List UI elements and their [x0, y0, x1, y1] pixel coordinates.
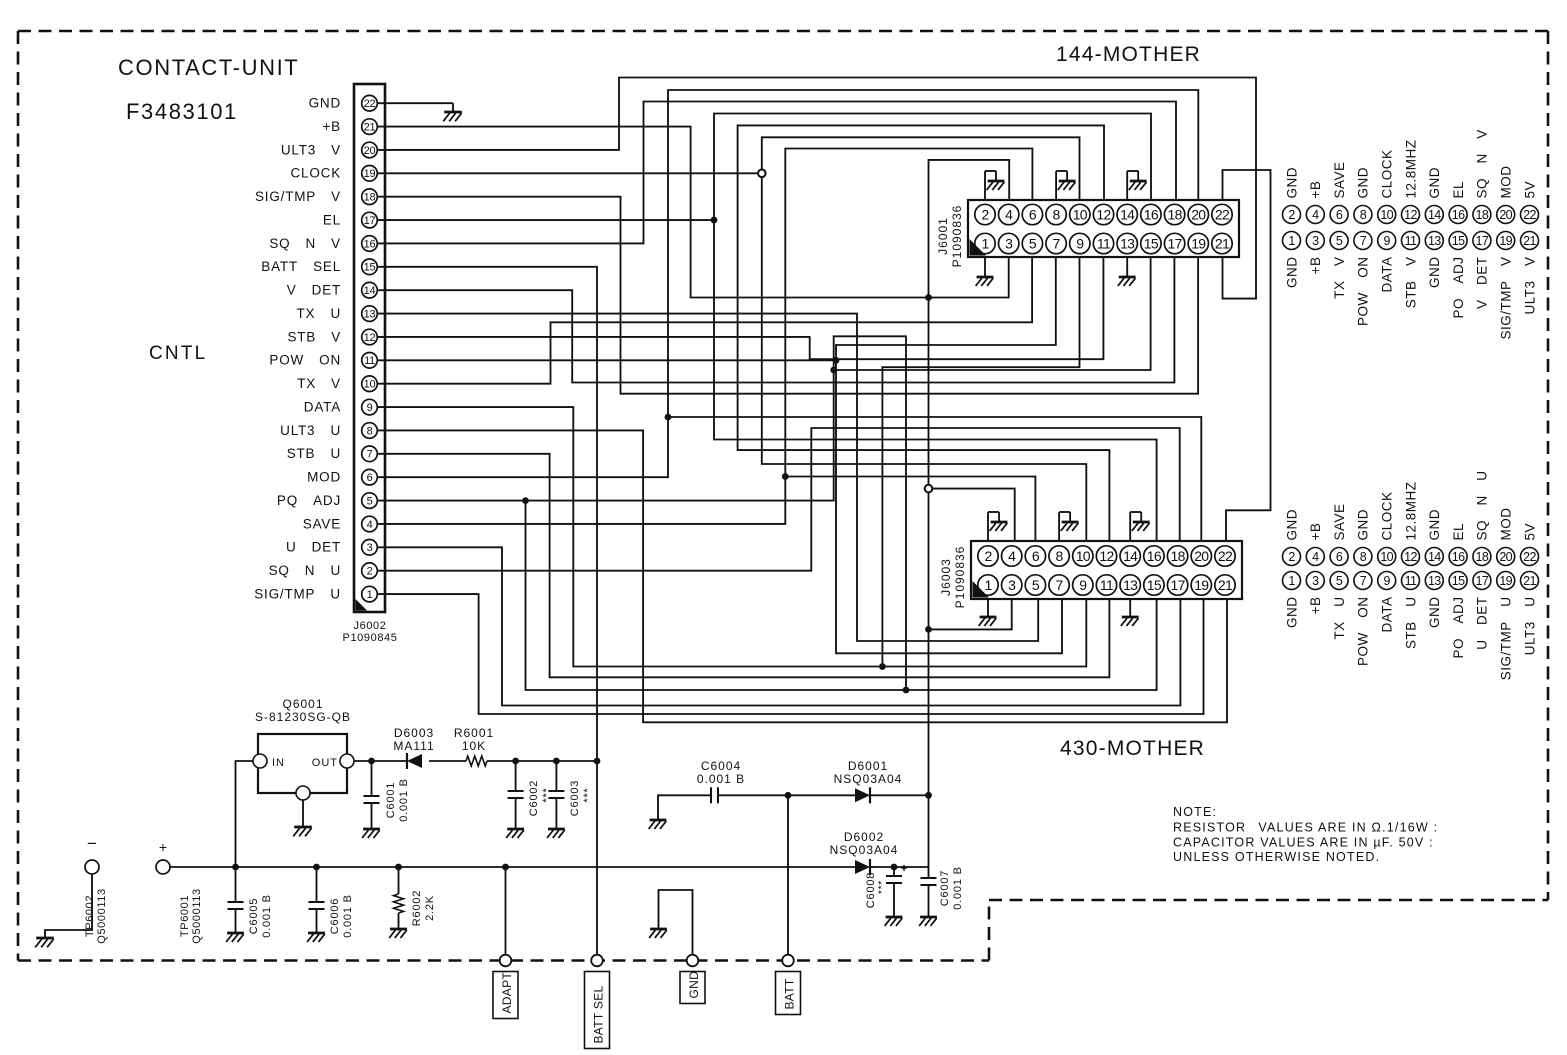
svg-text:C6004: C6004 [701, 759, 741, 773]
svg-text:SAVE: SAVE [1332, 161, 1347, 198]
svg-text:20: 20 [1194, 548, 1209, 564]
svg-text:GND: GND [1284, 167, 1299, 199]
ground at GND terminal [649, 929, 667, 938]
svg-text:2: 2 [984, 548, 992, 564]
svg-text:12: 12 [1404, 550, 1417, 564]
svg-text:19: 19 [1499, 234, 1512, 248]
svg-text:CAPACITOR VALUES ARE IN µF. 50: CAPACITOR VALUES ARE IN µF. 50V : [1173, 836, 1434, 850]
ground at C6003 [547, 829, 565, 838]
svg-text:2: 2 [1288, 550, 1295, 564]
capacitor C6001 [364, 761, 380, 829]
svg-text:NSQ03A04: NSQ03A04 [834, 772, 903, 786]
svg-text:16: 16 [364, 238, 376, 250]
svg-text:J6003: J6003 [939, 558, 953, 596]
svg-text:SQ N V: SQ N V [1475, 129, 1490, 198]
svg-text:14: 14 [1120, 207, 1135, 223]
svg-text:14: 14 [1123, 548, 1138, 564]
label C6006 [329, 894, 354, 938]
svg-text:21: 21 [1523, 234, 1536, 248]
svg-text:SIG/TMP U: SIG/TMP U [254, 586, 341, 601]
svg-text:NSQ03A04: NSQ03A04 [830, 843, 899, 857]
wire TP6002 to ground [45, 874, 92, 938]
svg-text:6: 6 [367, 472, 373, 484]
wire +B branch to J6003 pin3 [929, 599, 1012, 629]
svg-text:TP6002: TP6002 [84, 895, 96, 937]
svg-text:CLOCK: CLOCK [1380, 149, 1395, 198]
svg-text:GND: GND [687, 971, 701, 999]
capacitor C6003 [548, 761, 564, 829]
junction C6002 node [512, 758, 519, 765]
svg-text:4: 4 [1008, 548, 1016, 564]
ground at J6003 pin2 [988, 512, 1007, 541]
capacitor C6002 [508, 761, 524, 829]
label J6003 refdes [939, 546, 967, 609]
title 430-MOTHER [1060, 737, 1205, 760]
note text [1173, 805, 1438, 864]
svg-text:SQ N U: SQ N U [1475, 470, 1490, 540]
junction C6001 node [368, 758, 375, 765]
capacitor C6004 [711, 787, 718, 803]
junction +B at D6001 [925, 792, 932, 799]
svg-text:STB V: STB V [1403, 257, 1418, 309]
svg-text:5V: 5V [1522, 523, 1537, 541]
svg-text:18: 18 [1168, 207, 1183, 223]
svg-text:D6001: D6001 [848, 759, 888, 773]
label C6001 [385, 778, 410, 822]
svg-text:16: 16 [1452, 208, 1465, 222]
label C6008 [865, 872, 888, 908]
ground at R6002 [389, 929, 407, 938]
capacitor C6007 [921, 867, 937, 917]
junction C6008 node [891, 864, 898, 871]
svg-text:SIG/TMP V: SIG/TMP V [1499, 257, 1514, 340]
svg-text:8: 8 [1056, 548, 1064, 564]
terminal ADAPT [493, 955, 518, 1019]
svg-text:11: 11 [1100, 577, 1114, 593]
ground at J6003 pin13 [1121, 599, 1139, 626]
svg-text:16: 16 [1452, 550, 1465, 564]
svg-text:11: 11 [1405, 574, 1417, 588]
wire SIG/TMP U J6002 pin1 to J6003 pin19 [378, 594, 1204, 714]
svg-text:STB V: STB V [287, 329, 341, 344]
wire U DET J6002 pin3 to J6003 pin17 [378, 547, 1181, 705]
svg-text:3: 3 [1312, 234, 1319, 248]
svg-text:22: 22 [1215, 207, 1230, 223]
svg-text:PO ADJ: PO ADJ [1451, 257, 1466, 319]
junction BATT SEL at R6001 node [594, 758, 601, 765]
label J6002 refdes [343, 620, 398, 644]
svg-text:14: 14 [364, 285, 376, 297]
svg-text:12.8MHZ: 12.8MHZ [1403, 481, 1418, 540]
capacitor C6008 (electrolytic) [886, 865, 907, 917]
junction SAVE [782, 473, 789, 480]
svg-text:MOD: MOD [1499, 166, 1514, 199]
wire CLOCK branch to J6003 pin10 [762, 173, 1087, 541]
svg-text:12.8MHZ: 12.8MHZ [1403, 139, 1418, 198]
svg-text:5V: 5V [1522, 181, 1537, 199]
svg-text:POW ON: POW ON [1356, 597, 1371, 667]
svg-text:10: 10 [364, 379, 376, 391]
svg-text:20: 20 [364, 145, 376, 157]
svg-text:U DET: U DET [1475, 597, 1490, 650]
label C6007 [939, 866, 964, 910]
svg-text:9: 9 [1384, 234, 1391, 248]
regulator Q6001 body [253, 734, 354, 800]
svg-text:17: 17 [1168, 236, 1183, 252]
ground at Q6001 [293, 827, 312, 836]
svg-text:GND: GND [1356, 167, 1371, 199]
wire POW ON branch to J6003 pin7 [836, 360, 1062, 653]
junction rail at R6002 [395, 864, 402, 871]
svg-text:POW ON: POW ON [1356, 257, 1371, 327]
wire C6004 left lead [658, 795, 711, 820]
label TP6001 [179, 888, 203, 943]
svg-text:21: 21 [1215, 236, 1230, 252]
svg-text:DATA: DATA [1380, 257, 1395, 293]
J6002 pin name labels [254, 96, 341, 602]
ground at TP6002 [35, 938, 54, 947]
svg-text:MA111: MA111 [393, 739, 434, 753]
svg-text:SAVE: SAVE [1332, 503, 1347, 540]
svg-text:3: 3 [1008, 577, 1016, 593]
svg-text:***: *** [541, 787, 553, 802]
diode D6003 [407, 753, 422, 769]
svg-text:9: 9 [1076, 236, 1084, 252]
svg-text:R6001: R6001 [454, 726, 494, 740]
wire SAVE branch to J6003 pin6 [785, 477, 1035, 542]
svg-text:J6001: J6001 [936, 217, 950, 255]
wire V DET J6002 pin14 to J6001 pin17 [378, 257, 1175, 383]
wire ULT3 U J6002 pin8 to J6003 pin21 [378, 430, 1227, 722]
wire Q6001 OUT row [354, 760, 407, 762]
svg-text:8: 8 [367, 425, 373, 437]
svg-text:5: 5 [1336, 234, 1343, 248]
title F3483101 [126, 99, 238, 124]
svg-text:CLOCK: CLOCK [290, 166, 341, 181]
wire DATA branch to J6001 pin9 [882, 257, 1079, 667]
junction rail at C6006 [313, 864, 320, 871]
svg-text:TX U: TX U [1332, 597, 1347, 640]
wire D6001 to +B node [877, 794, 929, 796]
svg-text:430-MOTHER: 430-MOTHER [1060, 737, 1205, 760]
svg-text:BATT SEL: BATT SEL [592, 985, 606, 1043]
ground at C6004 [649, 820, 667, 829]
svg-text:P1090836: P1090836 [953, 546, 967, 609]
svg-text:P1090836: P1090836 [950, 205, 964, 268]
svg-text:20: 20 [1499, 208, 1512, 222]
svg-text:***: *** [582, 787, 594, 802]
svg-text:20: 20 [1191, 207, 1206, 223]
label C6005 [248, 894, 273, 938]
svg-text:+B: +B [1308, 257, 1323, 275]
junction C6003 node [553, 758, 560, 765]
svg-text:10: 10 [1380, 550, 1393, 564]
title 144-MOTHER [1056, 43, 1201, 66]
wire BATT SEL from J6002 pin15 to terminal [378, 267, 597, 961]
svg-text:13: 13 [1428, 234, 1441, 248]
svg-text:5: 5 [1029, 236, 1037, 252]
wire PQ ADJ from J6002 pin5 [378, 336, 1157, 690]
wire +B from J6002 pin21 [378, 127, 1009, 298]
wire SQ N U J6002 pin2 to J6003 pin18 [378, 428, 1180, 571]
label C6004 [697, 759, 745, 786]
svg-text:16: 16 [1144, 207, 1159, 223]
svg-text:C6006: C6006 [329, 898, 341, 934]
svg-text:GND: GND [1427, 167, 1442, 199]
wire DATA J6002 pin9 to J6003 pin9 [378, 407, 1087, 666]
resistor R6001 [466, 756, 487, 766]
label D6002 [830, 830, 899, 857]
svg-text:+B: +B [1308, 523, 1323, 541]
capacitor C6005 [228, 867, 244, 933]
svg-text:2.2K: 2.2K [424, 895, 436, 921]
wire 12.8MHZ J6001 pin12 to J6003 pin12 [738, 125, 1110, 541]
svg-text:BATT: BATT [783, 978, 797, 1009]
svg-text:0.001 B: 0.001 B [261, 894, 273, 938]
test point TP6002 [85, 834, 99, 874]
wire SQ N V J6002 pin16 to J6001 pin18 [378, 102, 1176, 244]
svg-text:8: 8 [1360, 550, 1367, 564]
wire +B branch to J6003 pin4 [929, 489, 1015, 541]
svg-text:GND: GND [1284, 257, 1299, 289]
svg-text:13: 13 [1428, 574, 1441, 588]
svg-text:TX U: TX U [297, 306, 342, 321]
test point TP6001 [156, 839, 170, 874]
label C6003 [569, 780, 594, 816]
svg-text:MOD: MOD [307, 470, 341, 485]
svg-text:UNLESS OTHERWISE NOTED.: UNLESS OTHERWISE NOTED. [1173, 850, 1380, 864]
wire 5V J6001 pin22 to J6003 pin22 [1223, 170, 1271, 541]
wire ADAPT drop [505, 867, 507, 961]
svg-text:SIG/TMP V: SIG/TMP V [255, 189, 341, 204]
svg-text:21: 21 [1523, 574, 1536, 588]
wire EL from J6002 pin17 to J6001 pin16 [378, 114, 1151, 221]
svg-text:2: 2 [367, 566, 373, 578]
svg-text:SAVE: SAVE [303, 516, 341, 531]
svg-text:12: 12 [364, 332, 376, 344]
svg-text:C6005: C6005 [248, 898, 260, 934]
junction DATA at J6003 row [879, 663, 886, 670]
label C6002 [528, 780, 553, 816]
svg-text:6: 6 [1032, 548, 1040, 564]
svg-text:CONTACT-UNIT: CONTACT-UNIT [118, 55, 299, 80]
terminal GND [680, 955, 705, 1004]
connector J6001 body and pins [968, 200, 1239, 257]
svg-text:19: 19 [1194, 577, 1209, 593]
svg-text:8: 8 [1053, 207, 1061, 223]
svg-text:7: 7 [1053, 236, 1061, 252]
svg-text:9: 9 [1079, 577, 1087, 593]
svg-text:3: 3 [1312, 574, 1319, 588]
ground at C6006 [307, 933, 325, 942]
svg-text:18: 18 [364, 192, 376, 204]
svg-text:GND: GND [1356, 509, 1371, 541]
junction PO ADJ at J6001 row [830, 367, 837, 374]
wire STB V J6002 pin12 to J6001 pin11 [378, 257, 1104, 359]
svg-text:RESISTOR VALUES ARE IN Ω.1/16: RESISTOR VALUES ARE IN Ω.1/16W : [1173, 821, 1438, 835]
junction POW ON [833, 357, 840, 364]
svg-text:18: 18 [1171, 548, 1186, 564]
label CNTL [149, 343, 207, 364]
ground at C6001 [362, 829, 380, 838]
junction PQ ADJ at x525 [522, 497, 529, 504]
svg-text:IN: IN [272, 757, 285, 769]
svg-text:0.001 B: 0.001 B [952, 866, 964, 910]
svg-text:F3483101: F3483101 [126, 99, 238, 124]
svg-text:1: 1 [367, 589, 373, 601]
svg-text:12: 12 [1096, 207, 1111, 223]
svg-text:15: 15 [1147, 577, 1162, 593]
wire ULT3 V J6002 pin20 to J6001 pin21 [378, 78, 1256, 299]
svg-text:4: 4 [367, 519, 373, 531]
label D6001 [834, 759, 903, 786]
wire SIG/TMP V J6002 pin18 to J6001 pin19 [378, 197, 1199, 394]
wire MOD branch to J6003 pin20 [668, 417, 1201, 541]
svg-text:GND: GND [1284, 509, 1299, 541]
svg-text:7: 7 [1360, 234, 1367, 248]
svg-text:GND: GND [1427, 509, 1442, 541]
svg-text:PQ ADJ: PQ ADJ [277, 493, 341, 508]
svg-text:17: 17 [364, 215, 376, 227]
svg-text:144-MOTHER: 144-MOTHER [1056, 43, 1201, 66]
wire POW ON J6002 pin11 to J6001 pin7 [378, 257, 1056, 360]
wire C6004 to D6001 [718, 794, 855, 796]
wire D6003 to R6001 [429, 760, 466, 762]
svg-text:3: 3 [1005, 236, 1013, 252]
wire Q6001 ground pin [302, 800, 304, 827]
svg-text:5: 5 [1032, 577, 1040, 593]
svg-text:16: 16 [1147, 548, 1162, 564]
svg-text:15: 15 [1144, 236, 1159, 252]
svg-text:SQ N U: SQ N U [269, 563, 341, 578]
ground at J6001 pin1 [976, 257, 994, 286]
wire PQ ADJ branch via x525 [526, 501, 907, 690]
svg-text:Q5000113: Q5000113 [96, 888, 108, 943]
svg-text:P1090845: P1090845 [343, 632, 398, 644]
label R6001 [454, 726, 494, 753]
svg-text:12: 12 [1099, 548, 1114, 564]
svg-text:0.001 B: 0.001 B [342, 894, 354, 938]
svg-text:7: 7 [1056, 577, 1064, 593]
ground at J6003 pin8 [1059, 512, 1078, 541]
label R6002 [411, 890, 436, 926]
svg-text:17: 17 [1171, 577, 1186, 593]
svg-text:C6001: C6001 [385, 782, 397, 818]
svg-text:17: 17 [1476, 234, 1489, 248]
junction rail at IN riser [232, 864, 239, 871]
svg-text:POW ON: POW ON [269, 353, 341, 368]
svg-text:U DET: U DET [286, 540, 341, 555]
J6003 mother-side pin list (circled numbers and signal names) [1283, 470, 1539, 680]
wire PO ADJ row to J6001 pin15 [834, 257, 1151, 370]
ground at J6001 pin14 [1127, 171, 1146, 200]
svg-text:EL: EL [323, 212, 341, 227]
svg-text:GND: GND [1284, 597, 1299, 629]
svg-text:C6008: C6008 [865, 872, 877, 908]
svg-text:0.001 B: 0.001 B [697, 772, 745, 786]
svg-text:9: 9 [367, 402, 373, 414]
junction BATT node [785, 792, 792, 799]
wire TX V J6002 pin10 to J6001 pin5 [378, 257, 1033, 384]
svg-text:+B: +B [1308, 597, 1323, 615]
junction PO ADJ row at riser [903, 687, 910, 694]
svg-text:11: 11 [1097, 236, 1111, 252]
svg-text:15: 15 [1452, 574, 1465, 588]
junction CLOCK [758, 170, 766, 178]
svg-text:13: 13 [1123, 577, 1138, 593]
svg-text:R6002: R6002 [411, 890, 423, 926]
svg-text:OUT: OUT [312, 757, 338, 769]
svg-text:20: 20 [1499, 550, 1512, 564]
ground at C6005 [226, 933, 244, 942]
svg-text:8: 8 [1360, 208, 1367, 222]
svg-text:GND: GND [1427, 257, 1442, 289]
junction EL [711, 217, 718, 224]
svg-text:6: 6 [1336, 550, 1343, 564]
svg-text:10: 10 [1076, 548, 1091, 564]
svg-text:22: 22 [1523, 550, 1536, 564]
svg-text:10: 10 [1380, 208, 1393, 222]
diode D6002 [855, 859, 877, 875]
svg-text:7: 7 [1360, 574, 1367, 588]
svg-text:19: 19 [364, 168, 376, 180]
ground at J6003 pin14 [1130, 512, 1149, 541]
svg-text:Q5000113: Q5000113 [191, 888, 203, 943]
connector J6002 body and pin circles 1-22 [354, 84, 385, 612]
svg-text:+B: +B [323, 119, 342, 134]
svg-text:DATA: DATA [304, 399, 341, 414]
svg-text:D6002: D6002 [844, 830, 884, 844]
junction +B at J6003 pin4 row [925, 485, 933, 493]
svg-text:***: *** [877, 880, 888, 894]
svg-text:ULT3 V: ULT3 V [1522, 257, 1537, 315]
svg-text:SIG/TMP U: SIG/TMP U [1499, 597, 1514, 681]
wire TX U J6002 pin13 to J6003 pin5 [378, 314, 1039, 641]
svg-text:2: 2 [1288, 208, 1295, 222]
wire +B branch to J6001 pin4 [929, 160, 1010, 298]
svg-text:V DET: V DET [287, 283, 341, 298]
svg-text:GND: GND [309, 96, 341, 111]
wire +B down to D6002 row [928, 795, 930, 867]
wire +B vertical to power section [928, 298, 930, 796]
wire R6001 to BATT SEL node [487, 760, 597, 762]
svg-text:6: 6 [1029, 207, 1037, 223]
svg-text:STB U: STB U [1403, 597, 1418, 650]
svg-text:9: 9 [1384, 574, 1391, 588]
svg-text:TP6001: TP6001 [179, 895, 191, 937]
svg-text:CNTL: CNTL [149, 343, 207, 364]
label J6001 refdes [936, 205, 964, 268]
wire EL branch to J6003 pin16 [714, 220, 1157, 541]
svg-text:11: 11 [1405, 234, 1417, 248]
svg-text:C6007: C6007 [939, 870, 951, 906]
svg-text:J6002: J6002 [354, 620, 387, 632]
svg-text:10: 10 [1073, 207, 1088, 223]
svg-text:1: 1 [981, 236, 989, 252]
svg-text:1: 1 [984, 577, 992, 593]
svg-text:14: 14 [1428, 208, 1441, 222]
svg-text:+B: +B [1308, 181, 1323, 199]
svg-text:BATT SEL: BATT SEL [261, 259, 341, 274]
svg-text:ADAPT: ADAPT [500, 972, 514, 1014]
wire CLOCK from J6002 pin19 to J6001 pin10 [378, 137, 1080, 200]
svg-text:ULT3 U: ULT3 U [280, 423, 341, 438]
capacitor C6006 [309, 867, 325, 933]
svg-text:18: 18 [1476, 550, 1489, 564]
svg-text:EL: EL [1451, 523, 1466, 541]
J6001 mother-side pin list (circled numbers and signal names) [1283, 129, 1539, 339]
svg-text:21: 21 [1218, 577, 1233, 593]
